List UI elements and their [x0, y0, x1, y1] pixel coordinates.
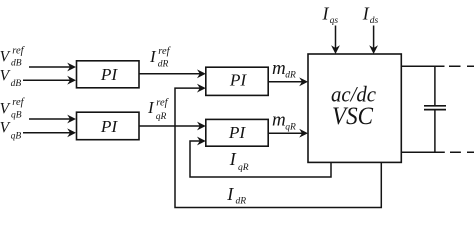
wire IqR-ref from PI2 to PI4 — [139, 122, 206, 131]
svg-text:qB: qB — [11, 131, 22, 141]
svg-text:V: V — [0, 101, 11, 118]
svg-text:m: m — [272, 58, 286, 79]
wire VdB-ref input into PI1 — [29, 63, 76, 72]
svg-text:qs: qs — [330, 16, 339, 26]
label ac/dc inside U1 — [331, 81, 376, 106]
wire dc bus top from U1 to capacitor — [402, 65, 445, 67]
PI controller box PI2 (q-axis voltage loop) — [77, 112, 140, 140]
svg-text:I: I — [149, 47, 157, 66]
svg-text:qB: qB — [11, 111, 22, 121]
svg-text:ref: ref — [12, 46, 25, 57]
svg-text:qR: qR — [285, 122, 296, 132]
node label VdB — [0, 67, 21, 89]
node label VdB-ref — [0, 46, 26, 69]
svg-text:qR: qR — [156, 112, 167, 122]
svg-text:VSC: VSC — [332, 103, 373, 130]
wire Iqs input arrow into U1 top — [331, 26, 340, 55]
PI controller box PI3 (d-axis current loop) — [206, 67, 268, 95]
svg-text:V: V — [0, 49, 11, 66]
node label mdR — [272, 58, 296, 80]
wire Ids input arrow into U1 top — [369, 26, 378, 55]
label VSC inside U1 — [332, 103, 373, 130]
node label IdR-ref — [149, 46, 172, 70]
PI controller box PI4 (q-axis current loop) — [206, 119, 268, 146]
node label mqR — [272, 110, 296, 133]
wire dc bus bottom from U1 to capacitor — [402, 151, 445, 153]
svg-text:ds: ds — [370, 16, 379, 26]
wire VqB input into PI2 — [23, 128, 76, 137]
wire IdR-ref from PI1 to PI3 — [139, 69, 206, 78]
svg-text:V: V — [0, 120, 11, 137]
svg-text:PI: PI — [100, 65, 119, 84]
converter block U1 ac/dc VSC — [308, 54, 401, 162]
capacitor C1 plates — [424, 106, 446, 110]
node label Ids — [362, 4, 379, 26]
wire mdR from PI3 to U1 — [268, 77, 308, 86]
label PI inside PI1 — [100, 65, 119, 84]
node label IqR feedback — [229, 149, 249, 173]
svg-text:ref: ref — [158, 46, 171, 57]
svg-text:ref: ref — [12, 97, 25, 108]
label PI inside PI2 — [100, 117, 119, 136]
svg-text:dR: dR — [236, 196, 247, 206]
label PI inside PI3 — [229, 71, 248, 90]
svg-text:I: I — [229, 149, 237, 169]
node label IqR-ref — [147, 97, 170, 122]
node label VqB-ref — [0, 97, 26, 120]
node label Iqs — [322, 4, 339, 26]
svg-text:dB: dB — [11, 79, 22, 89]
capacitor C1 top lead — [434, 66, 436, 105]
svg-text:dR: dR — [285, 70, 296, 80]
svg-text:V: V — [0, 67, 11, 84]
wire VqB-ref input into PI2 — [29, 115, 76, 124]
svg-text:PI: PI — [229, 71, 248, 90]
svg-text:I: I — [362, 4, 370, 24]
label PI inside PI4 — [228, 123, 247, 142]
svg-text:qR: qR — [238, 163, 249, 173]
node label VqB — [0, 120, 21, 142]
capacitor C1 bottom lead — [434, 110, 436, 152]
svg-text:I: I — [322, 4, 330, 24]
svg-text:I: I — [226, 184, 234, 204]
wire mqR from PI4 to U1 — [268, 129, 308, 138]
wire IqR feedback from U1 bottom to PI4 — [190, 137, 331, 177]
wire IdR feedback from U1 bottom to PI3 — [175, 84, 381, 208]
svg-text:dB: dB — [11, 59, 22, 69]
PI controller box PI1 (d-axis voltage loop) — [77, 61, 140, 88]
svg-text:I: I — [147, 98, 155, 117]
svg-text:PI: PI — [228, 123, 247, 142]
node label IdR feedback — [226, 184, 246, 206]
wire dc bus top dashed continuation — [449, 65, 474, 67]
svg-text:ref: ref — [156, 97, 169, 108]
wire dc bus bottom dashed continuation — [450, 151, 474, 153]
svg-text:dR: dR — [158, 60, 169, 70]
svg-text:m: m — [272, 110, 286, 131]
wire VdB input into PI1 — [23, 76, 76, 85]
svg-text:PI: PI — [100, 117, 119, 136]
